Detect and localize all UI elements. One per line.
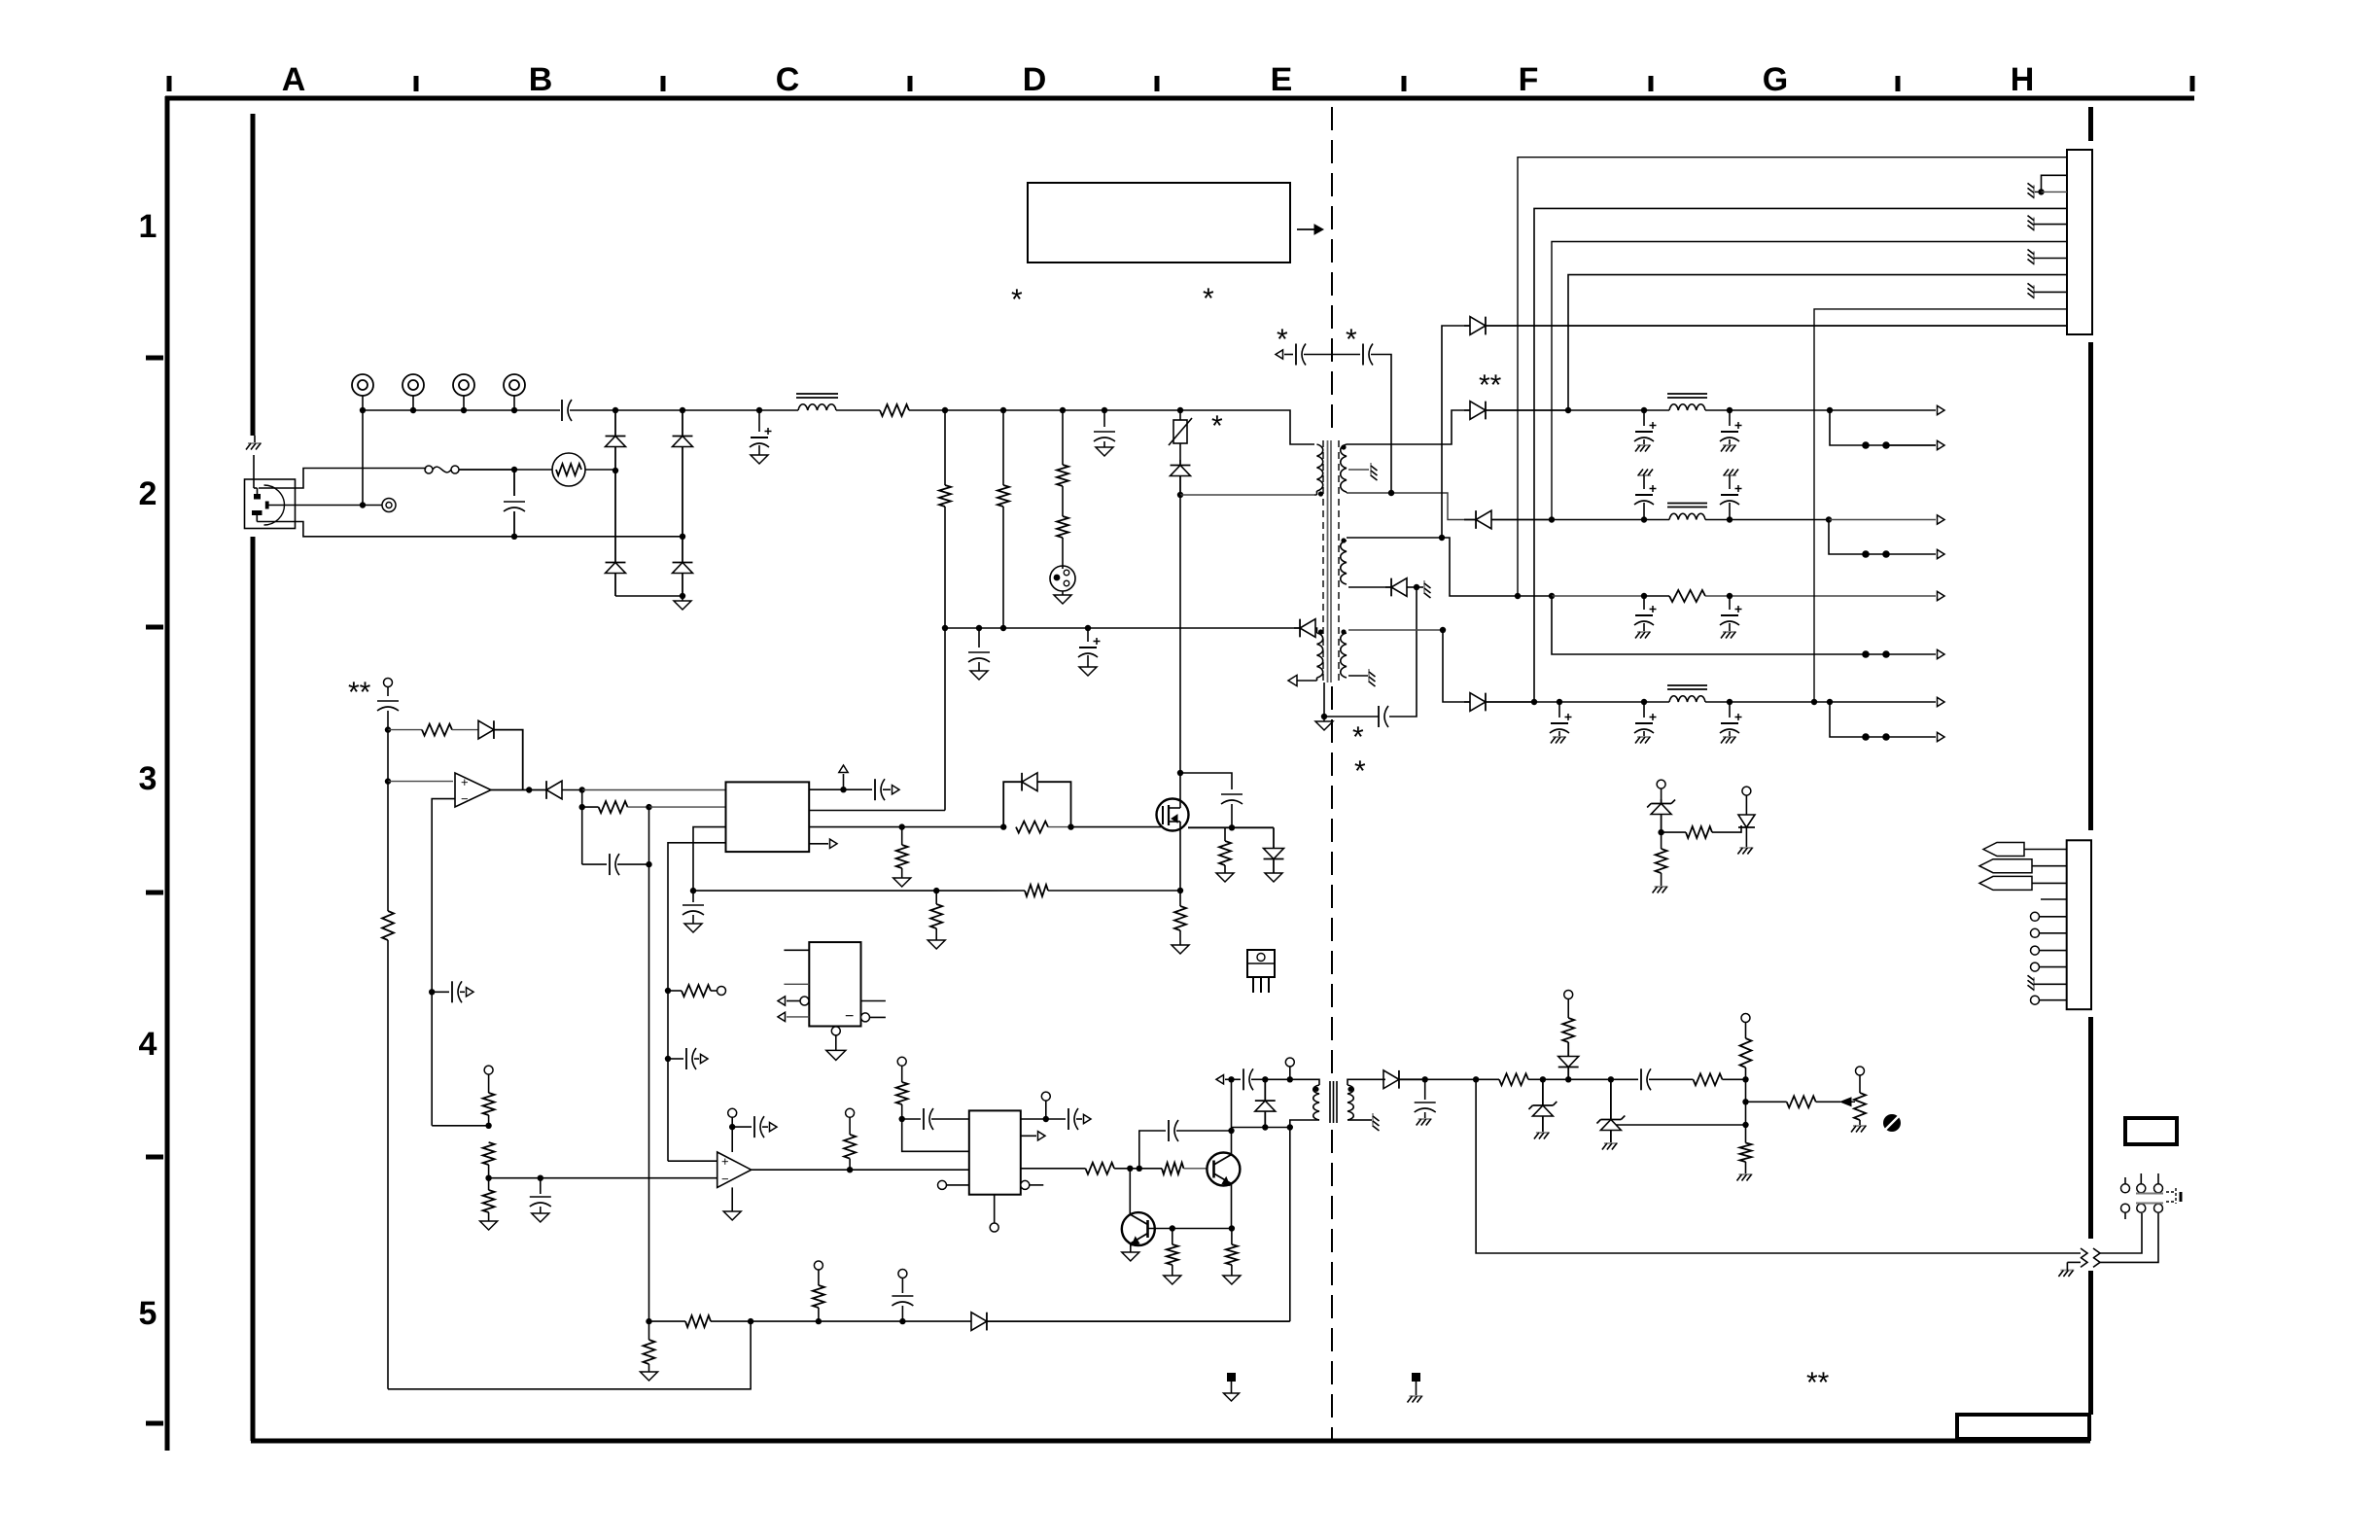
wire opamp output <box>491 787 546 792</box>
wire rail3 branch with jumper <box>1552 596 1944 659</box>
diode D2 clamp <box>1171 460 1191 498</box>
CN2 circle pin5 <box>2031 996 2067 1004</box>
connector pin J2 (top test pin) <box>402 374 424 410</box>
capacitor C19 rail4 filter <box>1634 702 1657 744</box>
svg-text:*: * <box>1011 284 1023 316</box>
wire U3 output <box>752 1167 969 1172</box>
snubber row above T1: arrow <box>1276 350 1293 359</box>
svg-text:A: A <box>282 61 306 98</box>
wire rail3 after resistor <box>1705 593 1936 599</box>
wire rail3 <box>1464 593 1669 599</box>
resistor R5 divider lower <box>1057 516 1068 569</box>
svg-text:*: * <box>1352 721 1364 753</box>
asterisk note c <box>1211 410 1223 442</box>
svg-text:**: ** <box>1806 1367 1830 1399</box>
wire Q3 emitter gnd <box>1122 1243 1139 1261</box>
varistor ZNR1 <box>1169 410 1192 460</box>
wire sec3 bottom to chassis <box>1348 669 1376 686</box>
board edge heavy bottom line <box>251 1439 2090 1444</box>
page border frame with ruler ticks <box>146 76 2194 1451</box>
chassis ground stub CN1 pin9 <box>2028 283 2068 298</box>
IC3 pin4 circle <box>938 1180 969 1189</box>
wire source down <box>1177 830 1183 893</box>
capacitor C12 rail1 filter <box>1634 410 1657 452</box>
asterisk note g <box>1354 755 1366 787</box>
diode D16 row5 <box>971 1312 1290 1331</box>
wire plug line3 (neutral) <box>257 515 682 537</box>
thermistor TH1 <box>514 453 618 486</box>
zener ZD2 <box>1596 1079 1625 1149</box>
T2 polarity dot primary <box>1313 1087 1318 1092</box>
capacitor C33 <box>1415 1079 1436 1125</box>
transformer T2 secondary <box>1347 1079 1357 1120</box>
resistor R24 <box>1164 1229 1181 1285</box>
transformer T2 core <box>1330 1081 1337 1123</box>
connector pin J5 (mid test pin) <box>382 499 396 512</box>
resistor R30 lower divider <box>1737 1125 1753 1181</box>
U2 bottom ground <box>826 1027 846 1061</box>
wire rail4 <box>1534 699 1669 705</box>
wire plug line2 (mid) <box>269 505 384 507</box>
wire IC1 pin3 net <box>690 827 726 894</box>
diode D1c bridge lower-left <box>606 471 626 596</box>
wire ZD2 to sense node <box>1616 1122 1749 1128</box>
resistor R35 to shunt ref <box>1662 826 1736 838</box>
capacitor CX2 on top bus <box>562 400 618 421</box>
wire to T2 area arrow <box>1216 1075 1241 1084</box>
capacitor C24 <box>875 779 899 800</box>
capacitor C21 <box>377 701 399 733</box>
wire rail1 after choke <box>1705 407 1833 413</box>
transformer T1 primary winding 1 <box>1317 444 1323 495</box>
resistor R26 <box>1499 1073 1546 1085</box>
capacitor C22 feedback <box>582 807 652 875</box>
wire pin stem to mid line <box>360 410 366 508</box>
IC3 pin circle right <box>1021 1180 1044 1189</box>
wire aux winding bottom to arrow <box>1288 675 1317 685</box>
transformer T1 secondary winding 1 <box>1341 444 1347 493</box>
asterisk-pair note snubber <box>1479 369 1502 402</box>
CN1 pin2 ground hook <box>2038 175 2067 194</box>
svg-text:E: E <box>1271 61 1293 98</box>
capacitor C5 bulk electrolytic <box>750 410 772 464</box>
wire row5 bottom rail <box>388 1321 751 1389</box>
svg-text:G: G <box>1763 61 1788 98</box>
wire feeder rail2 to pin6 <box>1552 242 2067 520</box>
wire divider to comparator <box>489 1175 717 1181</box>
wire bus into T1 primary <box>1180 410 1314 444</box>
legend chassis ground <box>1408 1373 1423 1403</box>
resistor R8 feedback <box>579 790 652 814</box>
asterisk note d <box>1277 324 1288 356</box>
faston terminal 1 <box>1983 843 2067 857</box>
capacitor C6 to ground <box>1094 410 1115 456</box>
wire + input from IC1 pin4 line <box>668 1160 717 1162</box>
board edge chevrons <box>2081 1248 2100 1267</box>
svg-text:H: H <box>2011 61 2035 98</box>
resistor R7 to diode <box>388 724 478 736</box>
wire chevron to CN3 pin2 <box>2100 1213 2158 1262</box>
capacitor C29 with arrow <box>732 1116 777 1137</box>
resistor R34 <box>1653 832 1668 892</box>
board edge heavy line left segment lower <box>251 537 256 1441</box>
wire row5 line right <box>751 1318 971 1324</box>
asterisk note e <box>1346 324 1357 356</box>
terminal circle R17 <box>484 1066 493 1093</box>
asterisk-pair note bottom <box>1806 1367 1830 1399</box>
diode D12 clamp to gnd <box>1264 827 1284 882</box>
wire Q2 emitter down <box>1229 1184 1235 1232</box>
wire C21 node down to opamp+ <box>385 730 453 785</box>
wire T2 secondary top <box>1357 1078 1385 1080</box>
wire gate to RD pair <box>902 823 1007 829</box>
svg-text:*: * <box>1346 324 1357 356</box>
driver IC3 <box>969 1110 1021 1194</box>
wire R8 to IC1 pin2 <box>649 806 726 808</box>
diode D14 feedback rect <box>1383 1070 1428 1089</box>
capacitor C34 series <box>1641 1068 1694 1090</box>
resistor R27 <box>1694 1073 1749 1085</box>
wire to IC1 pin1 <box>582 789 726 791</box>
wire rail2 <box>1552 516 1669 522</box>
wire diode to aux winding <box>1315 628 1317 633</box>
diode D3 aux rectifier <box>1294 619 1315 638</box>
IC1 pin arrow right <box>809 839 837 848</box>
resistor R16 source load <box>1172 891 1189 954</box>
adjust mark VR1 <box>1883 1114 1901 1132</box>
capacitor C13 rail1 filter <box>1720 410 1742 452</box>
capacitor C35 <box>892 1270 913 1322</box>
capacitor C15 rail2 filter (inverted) <box>1720 470 1742 520</box>
resistor R31 <box>685 1315 753 1327</box>
resistor R21 <box>896 1082 908 1122</box>
diode D11 gate speedup <box>1003 773 1070 827</box>
diode D6 output rect B <box>1464 402 1571 420</box>
wire feeder rail4 to pin4 <box>1534 208 2067 702</box>
wire top bus pins <box>360 407 560 413</box>
wire feeder rail1 to pin8 <box>1568 275 2067 410</box>
shunt regulator U4 (TL431) <box>1736 787 1755 854</box>
wire inverting feed <box>432 992 488 1126</box>
grid column letters A-H <box>282 61 2035 98</box>
svg-text:**: ** <box>1479 369 1502 402</box>
inductor L3 rail2 <box>1667 504 1707 520</box>
transformer T2 primary <box>1290 1079 1319 1127</box>
wire opamp inverting input <box>432 799 455 993</box>
diode D13 <box>1255 1079 1276 1130</box>
CN2 circle pin2 <box>2031 928 2067 937</box>
resistor R18 <box>483 1142 495 1181</box>
IC3 arrow pin <box>1021 1132 1045 1140</box>
capacitor C11 shield <box>1379 706 1388 727</box>
connector CN2 body <box>2067 840 2091 1009</box>
wire fb return down <box>1476 1079 2081 1253</box>
pwm controller IC1 <box>726 782 810 852</box>
terminal circle R21 <box>897 1057 906 1082</box>
wire drain up <box>1177 770 1183 799</box>
wire node to wiper <box>1742 1079 1748 1125</box>
transformer T1 primary aux winding <box>1317 633 1323 678</box>
svg-text:+: + <box>461 775 469 789</box>
IC3 bottom pin <box>990 1195 998 1232</box>
resistor R6 rail3 <box>1669 590 1705 602</box>
wire clamp node down to drain <box>1179 495 1181 773</box>
ac inlet ground (protective earth) <box>246 436 262 488</box>
wire Q2 collector up <box>1228 1076 1234 1154</box>
connector pin J4 (top test pin) <box>504 374 525 410</box>
label box D1 (note box) <box>1028 183 1290 262</box>
IC1 right pin1: vcc arrow and cap <box>809 765 872 792</box>
svg-text:*: * <box>1203 283 1214 315</box>
resistor R29 to pot <box>1746 1096 1841 1107</box>
resistor R10 to test point <box>665 985 726 997</box>
wire IC1 gate drive out <box>809 823 905 829</box>
wire clamp node to primary winding bottom <box>1180 494 1314 496</box>
capacitor C32 <box>1243 1068 1269 1090</box>
wire bridge bottom <box>615 595 682 597</box>
resistor R33 pullup <box>813 1261 824 1321</box>
diode D1b bridge upper-right <box>673 410 693 540</box>
isolation boundary dashed line <box>1331 107 1333 1443</box>
svg-text:F: F <box>1519 61 1539 98</box>
U2 pin4 arrow <box>778 1012 809 1021</box>
capacitor C14 rail2 filter (inverted) <box>1634 470 1657 520</box>
svg-text:C: C <box>776 61 800 98</box>
CN2 stub pin <box>2041 898 2067 900</box>
svg-text:5: 5 <box>139 1295 157 1332</box>
capacitor C28 with arrow <box>665 1048 708 1069</box>
diode D5 output rect A <box>1464 317 2067 335</box>
svg-text:+: + <box>721 1154 729 1169</box>
resistor R25 <box>1223 1229 1241 1285</box>
chassis ground at sec2 bottom <box>1417 580 1431 598</box>
board edge heavy line left segment upper <box>251 114 256 436</box>
wire shield cap to core <box>1321 682 1379 719</box>
wire plug line1 (hot) <box>254 469 426 495</box>
wire Q3 collector up <box>1129 1169 1131 1214</box>
resistor R22 base drive <box>1086 1163 1143 1174</box>
resistor R9 lower divider <box>382 782 394 1389</box>
capacitor C31 speedup <box>1139 1120 1232 1169</box>
connector pin J3 (top test pin) <box>453 374 474 410</box>
wire bus to varistor node <box>945 407 1183 413</box>
fuse F1 <box>425 466 459 473</box>
connector CN3 2x2 <box>2121 1173 2182 1219</box>
asterisk note a <box>1011 284 1023 316</box>
asterisk note b <box>1203 283 1214 315</box>
capacitor C20 rail4 filter <box>1720 702 1742 744</box>
wire fb line <box>1425 1076 1499 1082</box>
wire bottom rail into T2 <box>1232 1124 1293 1130</box>
wire row5 feedback line <box>646 1318 685 1324</box>
wire mid rail <box>945 625 1294 631</box>
zener ZD3 <box>1647 799 1675 835</box>
svg-text:*: * <box>1211 410 1223 442</box>
diode D1d bridge lower-right <box>673 537 693 599</box>
asterisk note f <box>1352 721 1364 753</box>
wire IC1 pin4 net down <box>668 843 726 1161</box>
diode D1a bridge upper-left <box>606 410 626 471</box>
inductor L4 rail4 <box>1667 685 1707 702</box>
wire sec3 top down to diode D <box>1443 630 1464 702</box>
wire rail2 after choke <box>1705 516 1832 522</box>
diode D8 output rect D <box>1464 693 1537 712</box>
resistor R17 <box>483 1093 495 1129</box>
asterisk-pair note left <box>348 677 371 709</box>
zener ZD1 <box>1528 1079 1557 1138</box>
transformer T1 secondary winding 3 <box>1341 633 1347 678</box>
wire IC1 vcc from mid rail <box>809 628 945 811</box>
regulator IC2 (TO-220 package) <box>1247 950 1275 993</box>
U3 ground <box>723 1187 741 1220</box>
U3 power rail <box>728 1108 737 1152</box>
potentiometer VR1 <box>1840 1067 1867 1133</box>
resistor R14 sense <box>1025 885 1180 896</box>
chassis ground stub bottom right <box>2058 1262 2081 1277</box>
resistor R12 gate <box>1016 822 1074 833</box>
svg-text:−: − <box>721 1172 729 1186</box>
terminal circle T2 <box>1285 1058 1294 1079</box>
wire fuse to node <box>459 467 517 472</box>
capacitor C23 on pin3 net <box>682 891 704 932</box>
wire T2 secondary bottom chassis <box>1357 1113 1380 1131</box>
capacitor C8 electrolytic aux <box>1078 628 1101 676</box>
wire fb line 2 <box>1568 1076 1638 1082</box>
resistor R13 snubber <box>1216 827 1234 882</box>
resistor R2 bleeder <box>939 410 951 631</box>
diode D7 output rect C <box>1464 510 1555 529</box>
wire T2 primary bottom down <box>1289 1128 1291 1322</box>
snubber C25 over Q1 <box>1180 773 1242 831</box>
transformer T1 core <box>1323 440 1339 682</box>
wire feeder rail3 to pin1 <box>1518 157 2067 596</box>
wire snubber to source node <box>1188 826 1274 828</box>
surge arrester SG1 <box>1050 566 1075 604</box>
wire sec1 bottom <box>1347 490 1464 520</box>
wire gate to mosfet <box>1071 826 1158 828</box>
wire rail2 to output arrow <box>1829 515 1944 524</box>
label box H4 <box>2125 1118 2177 1144</box>
faston terminal 3 <box>1979 876 2067 890</box>
resistor R4 divider upper <box>1057 410 1068 516</box>
T1 polarity dot primary1 <box>1318 491 1323 496</box>
wire IC3 output <box>1021 1168 1086 1170</box>
wire sec3 top <box>1348 627 1446 633</box>
inductor L2 rail1 <box>1667 394 1707 410</box>
wire rail4 branch with jumper <box>1830 702 1944 742</box>
capacitor C7 to ground <box>968 628 990 680</box>
U2 pin3 circle + arrow <box>778 997 809 1005</box>
resistor R23 base <box>1139 1163 1207 1174</box>
CN2 circle pin3 <box>2031 946 2067 955</box>
wire feeder rail4b to pin10 <box>1814 309 2067 702</box>
capacitor C17 rail3 filter <box>1720 596 1742 639</box>
terminal circle top of C21 <box>384 679 393 697</box>
transistor Q2 NPN driver <box>1207 1153 1240 1186</box>
resistor R19 <box>480 1178 498 1230</box>
resistor R3 bleeder <box>997 410 1009 631</box>
resistor R20 pullup <box>844 1108 856 1170</box>
T1 polarity dot secondary2 <box>1341 538 1346 542</box>
CN2 circle pin1 <box>2031 912 2067 921</box>
CN2 chassis pin <box>2028 975 2067 991</box>
op-amp U3 comparator <box>717 1152 752 1187</box>
T1 polarity dot secondary1 <box>1341 444 1346 449</box>
capacitor C18 rail4 filter <box>1550 702 1572 744</box>
diode D9 <box>478 720 523 789</box>
chassis ground stub CN1 pin7 <box>2028 250 2068 265</box>
wire rail4 after choke <box>1705 699 1833 705</box>
wire primary1 bottom (gray) <box>1314 494 1317 496</box>
svg-text:4: 4 <box>139 1026 157 1063</box>
title block box bottom right <box>1957 1415 2089 1439</box>
T1 polarity dot secondary3 <box>1341 629 1346 634</box>
wire rail1 <box>1568 407 1669 413</box>
wire feedback node down <box>648 864 650 1321</box>
diode D4 aux-out rectifier <box>1385 578 1407 597</box>
wire sec1 top <box>1347 410 1464 444</box>
chassis ground CN1 pin2 <box>2028 183 2042 198</box>
wire T2 top line <box>1265 1076 1310 1082</box>
svg-text:B: B <box>529 61 553 98</box>
resistor R28 pullup <box>1740 1014 1752 1080</box>
svg-text:3: 3 <box>139 760 157 797</box>
wire bus to bridge <box>615 407 762 413</box>
transistor Q3 NPN <box>1122 1212 1155 1245</box>
capacitor C9 snubber <box>1296 344 1360 366</box>
wire chevron to CN3 pin1 <box>2100 1213 2142 1253</box>
svg-text:2: 2 <box>139 475 157 512</box>
cold ground arrow below shield <box>1315 717 1333 730</box>
resistor R11 gate pulldown <box>893 827 911 887</box>
T2 polarity dot secondary <box>1347 1087 1352 1092</box>
svg-text:*: * <box>1354 755 1366 787</box>
connector CN1 body <box>2067 150 2092 334</box>
board edge heavy right segments <box>2088 107 2093 1415</box>
MOSFET Q1 <box>1157 799 1189 831</box>
diode D10 <box>546 781 585 799</box>
wire sec2 node down <box>1389 587 1417 717</box>
wire sec2 bottom <box>1348 584 1419 590</box>
capacitor across line CX1 <box>504 470 525 540</box>
capacitor C27 <box>530 1178 551 1222</box>
capacitor C26 with arrow <box>429 981 473 1002</box>
svg-text:D: D <box>1023 61 1047 98</box>
svg-text:−: − <box>845 1008 854 1025</box>
capacitor C30 into IC3 <box>902 1108 969 1130</box>
arrow from D1 box to isolation line <box>1297 225 1323 234</box>
chassis ground stub CN1 pin5 <box>2028 216 2068 231</box>
supervisor IC U2 <box>809 942 860 1026</box>
LED D15 indicator <box>1558 991 1579 1080</box>
wire sec2 top to diode A <box>1442 326 1464 538</box>
faston terminal 2 <box>1979 859 2067 873</box>
wire rail4 to output arrow <box>1830 697 1944 706</box>
svg-text:1: 1 <box>139 208 157 245</box>
wire sec1 center tap to chassis <box>1348 463 1378 480</box>
svg-text:*: * <box>1277 324 1288 356</box>
resistor R32 to gnd <box>641 1321 658 1381</box>
wire sec2 top <box>1347 535 1464 596</box>
wire rail2 branch with jumper <box>1829 520 1944 559</box>
svg-text:−: − <box>461 791 469 806</box>
IC3 right pin1 cap arrow <box>1021 1092 1091 1130</box>
wire Q3 base row <box>1148 1225 1232 1231</box>
rail3 output arrow <box>1938 591 1945 600</box>
resistor R15 sense divider <box>927 891 945 949</box>
legend cold ground <box>1224 1373 1240 1401</box>
wire rail1 branch with jumper <box>1830 410 1944 450</box>
